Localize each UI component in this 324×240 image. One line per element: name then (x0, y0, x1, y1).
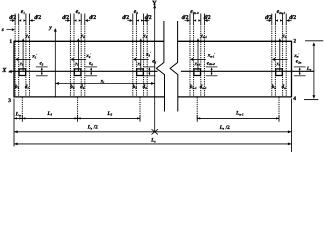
e vertical eccentricity bars hole 2 (85, 66, 97, 68)
left edge extension line (13, 99, 15, 147)
svg-text:e2n-1: e2n-1 (277, 9, 286, 15)
hole group 2 dotted gauge lines (69, 14, 71, 25)
dimension row1 line left (14, 117, 140, 119)
d/2 right arrow hole 1 (32, 20, 35, 22)
svg-text:Y: Y (152, 0, 157, 7)
d/2 left arrow hole 2 (65, 20, 68, 22)
svg-text:d1: d1 (25, 84, 30, 90)
row1 arrowheads (14, 117, 17, 119)
svg-text:Ly: Ly (306, 66, 312, 72)
hole group 4 centre extension below beam (196, 97, 198, 119)
beam plate right edge (291, 41, 293, 98)
svg-text:e3: e3 (76, 9, 81, 15)
s arrow (6, 29, 11, 31)
row3 arrowheads (14, 143, 18, 146)
svg-text:2: 2 (293, 38, 296, 44)
svg-text:b2: b2 (70, 84, 75, 90)
beam height dimension top bar (305, 40, 323, 42)
hole 3 local y axis arrow (140, 40, 142, 71)
svg-text:d3: d3 (143, 84, 148, 90)
dimension row3 line (14, 143, 292, 145)
svg-text:bn: bn (272, 84, 277, 90)
hole 1 local y axis arrow (22, 40, 24, 71)
hole group 2 centre extension below beam (77, 97, 79, 119)
svg-text:bn-1: bn-1 (190, 84, 197, 90)
hole 5 local y axis arrow (279, 40, 281, 71)
break line right with zigzag (170, 21, 178, 112)
row1 tick (77, 115, 79, 122)
e inner arrows hole 4 (194, 19, 197, 21)
svg-text:e2n-3: e2n-3 (190, 9, 199, 15)
beam plate left edge (13, 41, 15, 98)
break line left with zigzag (156, 21, 164, 112)
dimension row2 line (14, 131, 292, 133)
row1 tick (196, 115, 198, 122)
d/2 right arrow hole 2 (87, 20, 90, 22)
svg-text:x3′: x3′ (145, 51, 151, 58)
d/2 left arrow hole 4 (185, 20, 188, 22)
svg-text:e1: e1 (21, 9, 26, 15)
svg-text:d2: d2 (80, 84, 85, 90)
svg-text:Ls: Ls (219, 125, 225, 131)
e inner arrows hole 3 (136, 19, 139, 21)
e inner arrows hole 2 (74, 19, 77, 21)
hole 5 square opening (276, 69, 283, 76)
svg-text:Ln-1: Ln-1 (235, 111, 244, 117)
beam height dimension bottom bar (304, 99, 318, 101)
hole group 3 dotted gauge lines (132, 14, 134, 25)
row1 tick (278, 115, 280, 122)
row1 tick (139, 115, 141, 122)
e vertical eccentricity bars hole 4 (206, 66, 218, 68)
hole group 1 dotted gauge lines (14, 14, 16, 25)
e vertical eccentricity bars hole 1 (36, 66, 48, 68)
svg-text:Lw: Lw (15, 111, 22, 117)
svg-text:1: 1 (9, 39, 12, 45)
hole 2 square opening (74, 69, 81, 76)
x-prime dimension arrow hole 2 (73, 58, 86, 60)
svg-text:L2: L2 (106, 111, 112, 117)
hole group 5 dotted gauge lines (271, 14, 273, 25)
dimension row1 line right (197, 117, 279, 119)
svg-text:b3: b3 (133, 84, 138, 90)
svg-text:xn-1′: xn-1′ (207, 52, 216, 59)
svg-text:X: X (1, 67, 7, 74)
hole 4 square opening (194, 69, 201, 76)
svg-text:e4: e4 (89, 60, 93, 66)
X axis centerline right part (181, 70, 314, 72)
svg-text:e2n-2: e2n-2 (207, 60, 215, 66)
svg-text:yn-1: yn-1 (194, 61, 201, 66)
svg-text:/2: /2 (93, 125, 98, 131)
svg-text:Ls: Ls (87, 125, 93, 131)
centroid y axis (left) (54, 29, 56, 97)
beam plate bottom edge left segment (14, 96, 165, 98)
d/2 left arrow hole 1 (10, 20, 13, 22)
hole 1 square opening (19, 69, 26, 76)
svg-text:e5: e5 (134, 9, 139, 15)
svg-text:/2: /2 (225, 125, 230, 131)
svg-text:x1′: x1′ (31, 53, 37, 60)
svg-text:dn-1: dn-1 (200, 84, 207, 90)
svg-text:e6: e6 (152, 59, 156, 65)
Y axis center line (154, 5, 156, 132)
svg-text:y: y (48, 25, 52, 31)
hole 3 square opening (137, 69, 144, 76)
svg-text:/2: /2 (91, 15, 97, 21)
x-prime dimension arrow hole 3 (136, 58, 149, 60)
d/2 right arrow hole 4 (207, 20, 210, 22)
beam height dimension line with arrows (313, 44, 315, 98)
x0 dimension from centroid axis to Y axis (55, 82, 154, 84)
hole group 3 centre extension below beam (139, 97, 141, 119)
svg-text:e2: e2 (40, 61, 44, 67)
d/2 right arrow hole 3 (146, 20, 149, 22)
beam plate top edge left segment (14, 40, 164, 42)
beam plate top edge right segment (178, 40, 292, 42)
svg-text:xi: xi (100, 79, 105, 85)
svg-text:L1: L1 (46, 111, 52, 117)
hole group 4 dotted gauge lines (189, 14, 191, 25)
x-prime dimension arrow hole 4 (193, 58, 206, 60)
row2 arrowheads (14, 130, 18, 133)
row1 tick (21, 115, 23, 122)
hole group 1 centre extension below beam (21, 97, 23, 119)
hole group 5 centre extension below beam (278, 97, 280, 119)
x-prime dimension arrow hole 5 (275, 58, 288, 60)
e vertical eccentricity bars hole 5 (294, 66, 306, 68)
svg-text:e2n: e2n (296, 59, 302, 65)
svg-text:/2: /2 (36, 15, 42, 21)
svg-text:x2′: x2′ (85, 53, 91, 60)
svg-text:3: 3 (8, 98, 11, 104)
svg-text:s: s (1, 27, 4, 33)
svg-text:yn-1: yn-1 (200, 33, 208, 39)
hole 2 local y axis arrow (77, 40, 79, 71)
hole 4 local y axis arrow (197, 40, 199, 71)
e vertical eccentricity bars hole 3 (144, 66, 156, 68)
e inner arrows hole 5 (275, 19, 278, 21)
d/2 left arrow hole 3 (127, 20, 130, 22)
svg-text:b1: b1 (15, 84, 20, 90)
x-prime dimension arrow hole 1 (18, 58, 31, 60)
svg-text:dn: dn (282, 84, 287, 90)
svg-text:Ls: Ls (150, 138, 156, 144)
e inner arrows hole 1 (19, 19, 22, 21)
d/2 right arrow hole 5 (289, 20, 292, 22)
svg-text:4: 4 (293, 96, 296, 102)
right edge extension line (291, 99, 293, 153)
X axis centerline left part (9, 70, 158, 72)
beam plate bottom edge right segment (178, 96, 292, 98)
d/2 left arrow hole 5 (266, 20, 269, 22)
